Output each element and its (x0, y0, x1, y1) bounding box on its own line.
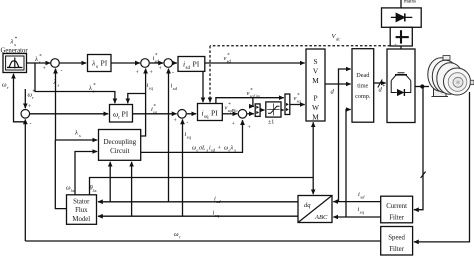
svg-text:*: * (382, 85, 385, 90)
svg-text:sd: sd (360, 195, 365, 200)
svg-text:PI: PI (193, 60, 200, 69)
svg-text:σL: σL (199, 146, 206, 152)
svg-text:λ: λ (10, 39, 14, 46)
svg-text:sq: sq (204, 115, 209, 120)
svg-text:λ: λ (74, 130, 78, 137)
svg-text:λ: λ (230, 146, 234, 152)
svg-text:±1: ±1 (268, 120, 274, 126)
svg-text:sqPIo: sqPIo (228, 108, 238, 113)
svg-text:+: + (150, 70, 153, 76)
svg-text:Generator: Generator (1, 48, 29, 55)
svg-text:+: + (248, 125, 251, 131)
svg-text:S: S (313, 57, 317, 66)
svg-text:+: + (136, 70, 139, 76)
svg-text:λ: λ (88, 85, 92, 92)
svg-text:r: r (7, 85, 9, 90)
svg-text:sq: sq (360, 210, 365, 215)
svg-text:PI: PI (122, 110, 129, 119)
svg-text:ABC: ABC (314, 214, 328, 221)
svg-text:sq: sq (153, 110, 158, 115)
svg-text:-: - (187, 120, 189, 126)
svg-text:sq: sq (187, 135, 192, 140)
svg-text:+: + (43, 66, 46, 72)
svg-text:dc: dc (336, 37, 340, 42)
svg-text:sqLim: sqLim (250, 94, 260, 99)
svg-text:s: s (79, 133, 81, 138)
svg-text:s: s (234, 148, 236, 153)
svg-text:λ: λ (34, 56, 38, 63)
svg-text:V: V (313, 67, 319, 76)
svg-text:sq: sq (149, 86, 154, 91)
svg-text:PI: PI (101, 59, 108, 68)
svg-text:PI: PI (211, 109, 218, 118)
svg-text:+: + (232, 122, 235, 128)
svg-text:+: + (174, 118, 177, 124)
svg-text:+: + (28, 104, 31, 110)
svg-text:Filter: Filter (389, 214, 404, 221)
svg-text:Stator: Stator (73, 198, 90, 205)
svg-text:dq: dq (304, 202, 311, 209)
svg-text:s: s (93, 89, 95, 94)
svg-text:comp.: comp. (355, 93, 371, 100)
svg-text:λ: λ (53, 79, 57, 86)
svg-text:sd: sd (173, 86, 178, 91)
svg-text:P: P (313, 94, 317, 103)
svg-text:-: - (172, 70, 174, 76)
svg-text:M: M (312, 112, 319, 121)
svg-text:Filter: Filter (389, 246, 404, 253)
svg-text:+: + (159, 66, 162, 72)
svg-text:Dead: Dead (356, 72, 370, 79)
svg-text:sd: sd (216, 199, 221, 204)
svg-text:d: d (331, 89, 335, 96)
svg-text:-: - (30, 121, 32, 127)
svg-text:λs: λs (92, 188, 97, 193)
svg-text:M: M (312, 76, 319, 85)
svg-text:Circuit: Circuit (110, 147, 129, 155)
svg-text:s: s (58, 83, 60, 88)
svg-text:Decoupling: Decoupling (103, 138, 136, 146)
svg-text:sd: sd (186, 66, 191, 71)
svg-text:r: r (179, 235, 181, 240)
svg-text:s: s (96, 65, 98, 70)
svg-text:Speed: Speed (388, 235, 405, 242)
svg-text:Current: Current (386, 203, 407, 210)
svg-text:time: time (357, 83, 368, 90)
svg-text:s: s (39, 60, 41, 65)
svg-text:sd: sd (155, 59, 160, 64)
svg-text:λs: λs (70, 188, 75, 193)
svg-text:sq: sq (297, 99, 302, 104)
svg-text:-: - (395, 42, 397, 48)
svg-text:r: r (32, 95, 34, 100)
svg-text:+: + (218, 146, 222, 152)
svg-text:-: - (61, 68, 63, 74)
svg-text:Flux: Flux (75, 207, 88, 214)
svg-text:Model: Model (72, 216, 90, 223)
svg-text:W: W (312, 103, 319, 112)
svg-text:s: s (14, 42, 16, 47)
svg-text:sd: sd (227, 59, 232, 64)
svg-text:mains: mains (404, 0, 416, 5)
svg-text:sq: sq (215, 213, 220, 218)
